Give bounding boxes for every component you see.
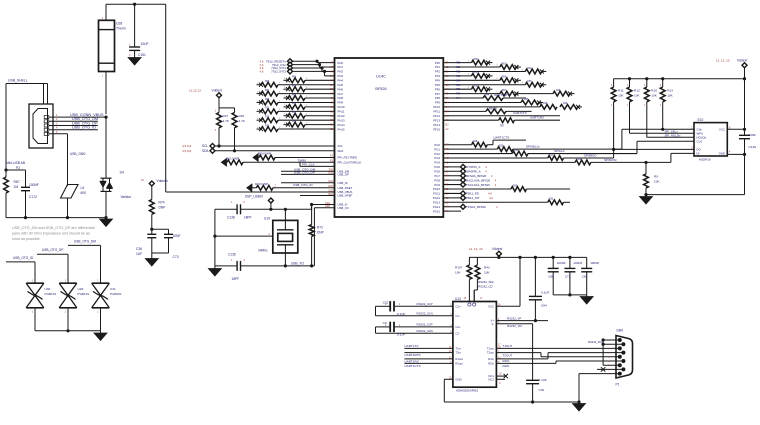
svg-text:PF13: PF13 — [433, 118, 440, 122]
svg-text:10K: 10K — [618, 93, 624, 97]
pin 3 wire USB_OTG_DP — [49, 125, 98, 127]
svg-text:R70 DNP: R70 DNP — [255, 182, 268, 186]
svg-text:PF4: PF4 — [435, 79, 441, 83]
svg-text:U19: U19 — [264, 216, 270, 220]
svg-text:10K: 10K — [634, 93, 640, 97]
resistor R67 on PH7 — [257, 93, 262, 95]
svg-text:R26: R26 — [473, 141, 478, 143]
wire crystal ground pins — [215, 235, 273, 237]
svg-text:UART1TX: UART1TX — [513, 111, 527, 115]
wire pin1 stub — [603, 339, 620, 341]
resistor R68 on PH8 — [284, 97, 289, 99]
svg-text:4.7K: 4.7K — [223, 119, 230, 123]
svg-text:SDA: SDA — [338, 149, 344, 153]
svg-text:R35: R35 — [513, 185, 518, 187]
capacitor C151 — [134, 4, 136, 46]
svg-text:PG1: PG1 — [434, 147, 440, 151]
svg-text:R71: R71 — [265, 108, 270, 110]
svg-text:R19: R19 — [577, 159, 582, 161]
junction — [133, 3, 136, 6]
svg-text:RS232_C1P: RS232_C1P — [417, 302, 433, 306]
svg-text:pairs with 90 Ohm impedance a: pairs with 90 Ohm impedance and should b… — [12, 232, 90, 236]
resistor R57 on PF7 — [443, 93, 500, 95]
svg-text:UART1CTS: UART1CTS — [494, 136, 510, 140]
svg-text:R57: R57 — [456, 93, 461, 96]
wire T2OUT to pin3 — [496, 352, 541, 354]
svg-text:PG3: PG3 — [434, 156, 440, 160]
svg-text:R50 DNP: R50 DNP — [258, 152, 271, 156]
transceiver U12 ADM3202ARNZ — [453, 302, 497, 388]
svg-text:PF5: PF5 — [435, 83, 441, 87]
resistor R70 on PH10 — [284, 106, 289, 108]
svg-text:RS232_C1N: RS232_C1N — [417, 312, 433, 316]
svg-text:RS232_VP: RS232_VP — [507, 316, 521, 320]
svg-text:R50: R50 — [456, 62, 461, 65]
capacitor C30 0.1UF — [526, 379, 539, 381]
svg-text:7912_INT2: 7912_INT2 — [271, 70, 286, 74]
svg-text:10NF: 10NF — [173, 234, 181, 238]
svg-text:M25P16: M25P16 — [699, 157, 711, 161]
wire shell — [6, 83, 48, 85]
svg-text:PH13: PH13 — [338, 118, 345, 122]
svg-text:R52: R52 — [527, 68, 532, 70]
wire pin6 stub — [603, 343, 623, 345]
capacitor C71 100NF — [569, 257, 571, 268]
svg-text:RFS0A_BF526: RFS0A_BF526 — [466, 174, 487, 178]
net RFS0A_BF526 — [443, 175, 461, 177]
svg-text:D20: D20 — [328, 185, 333, 188]
svg-text:R107: R107 — [455, 266, 463, 270]
svg-text:24Mhz: 24Mhz — [258, 249, 268, 253]
pin 5 — [618, 355, 622, 359]
svg-text:SPIMISO: SPIMISO — [584, 154, 597, 158]
svg-text:Vddext: Vddext — [492, 247, 502, 251]
resistor R12 10K — [629, 79, 631, 87]
svg-text:R13: R13 — [667, 89, 673, 93]
svg-text:R50: R50 — [474, 59, 479, 61]
wire Vddext rail — [614, 78, 745, 80]
resistor R73 on PH13 — [257, 119, 262, 121]
svg-text:PH3: PH3 — [338, 74, 344, 78]
pin 9 — [618, 372, 622, 376]
net PB11_INT — [443, 197, 461, 199]
resistor R44 on PF8 — [443, 97, 483, 99]
resistor R48 on PF10 — [443, 106, 540, 108]
ground — [104, 216, 107, 219]
wire WPd — [630, 132, 695, 134]
svg-text:10K: 10K — [455, 270, 461, 274]
svg-text:R33: R33 — [549, 199, 554, 201]
wire DO — [614, 148, 694, 150]
svg-text:C30: C30 — [539, 388, 545, 392]
resistor R19 on PG4 SPIMOSI — [443, 161, 575, 163]
resistor R51 on PF1 — [443, 66, 500, 68]
svg-text:R44: R44 — [456, 97, 461, 100]
svg-text:100NF: 100NF — [557, 261, 566, 265]
svg-text:G20: G20 — [328, 180, 333, 183]
svg-text:E10: E10 — [698, 118, 704, 122]
svg-text:R65: R65 — [265, 81, 270, 83]
svg-text:RS232_DCD: RS232_DCD — [588, 340, 604, 344]
resistor R55 on PF5 — [443, 84, 525, 86]
svg-text:USB_ID: USB_ID — [338, 181, 348, 185]
resistor R45 on PF9 — [443, 101, 521, 103]
svg-text:Vddext: Vddext — [212, 89, 222, 93]
pin 1 wire USB_CONN_VBUS — [49, 116, 106, 118]
svg-text:T2in: T2in — [455, 351, 461, 355]
svg-text:USB_OTG_ID: USB_OTG_ID — [13, 256, 34, 260]
svg-text:SCL: SCL — [202, 144, 208, 148]
svg-text:USB_OTG_ID: USB_OTG_ID — [72, 126, 96, 130]
capacitor C138 — [215, 208, 237, 210]
svg-text:4,6: 4,6 — [488, 192, 492, 196]
wire VBUS to chip — [165, 4, 167, 192]
svg-text:PG4: PG4 — [434, 161, 440, 165]
wire GND — [727, 153, 744, 155]
svg-text:PB11_INT: PB11_INT — [466, 196, 480, 200]
svg-text:A18: A18 — [325, 204, 330, 208]
svg-text:PH4: PH4 — [338, 79, 344, 83]
wire USB_OTG_DM stub — [281, 170, 335, 172]
net DT0PRI_A — [443, 166, 461, 168]
svg-text:R87: R87 — [14, 180, 20, 184]
svg-text:PF15: PF15 — [433, 127, 440, 131]
ESD diode U30 PGB1010603 — [26, 282, 44, 284]
svg-text:R56 20: R56 20 — [489, 108, 498, 111]
resistor R13 10K — [662, 79, 664, 87]
svg-text:R51: R51 — [456, 66, 461, 69]
wire RS232_C1P — [394, 305, 453, 307]
svg-text:R1in: R1in — [488, 357, 494, 361]
svg-text:PH6: PH6 — [338, 87, 344, 91]
svg-text:USB_SHELL: USB_SHELL — [8, 79, 28, 83]
svg-text:U30: U30 — [45, 287, 51, 291]
svg-text:P1: P1 — [616, 383, 620, 387]
svg-text:R47: R47 — [223, 114, 229, 118]
svg-text:NC2: NC2 — [488, 377, 494, 381]
svg-text:SPISEL1n: SPISEL1n — [526, 145, 540, 149]
svg-text:GND: GND — [719, 152, 725, 156]
flash E10 M25P16 — [694, 123, 727, 156]
wire USB_XO — [314, 207, 334, 209]
net DR0PRI_A — [443, 170, 461, 172]
svg-text:V-: V- — [491, 322, 494, 326]
svg-text:USB_VREF: USB_VREF — [338, 194, 353, 198]
svg-text:ADM3202ARNZ: ADM3202ARNZ — [456, 389, 478, 393]
svg-text:VCC: VCC — [488, 304, 494, 308]
svg-text:RS232_C2N: RS232_C2N — [417, 329, 433, 333]
svg-text:RS232_C2P: RS232_C2P — [417, 323, 433, 327]
svg-text:PG7: PG7 — [434, 174, 440, 178]
pin 6 — [621, 359, 625, 363]
wire — [219, 107, 235, 109]
net TSCLK0A_BF526 — [443, 184, 461, 186]
resistor R33 on PG13 — [443, 201, 548, 203]
svg-text:R52: R52 — [456, 70, 461, 73]
svg-text:R74: R74 — [292, 121, 297, 123]
svg-text:R57: R57 — [502, 90, 507, 92]
svg-text:PPI_CLK: PPI_CLK — [302, 162, 316, 166]
resistor R35 on PG10 — [443, 188, 511, 190]
svg-text:UART1RX: UART1RX — [404, 359, 418, 363]
svg-text:PF8: PF8 — [435, 96, 441, 100]
svg-text:RSCLK0A_BF526: RSCLK0A_BF526 — [466, 178, 491, 182]
svg-text:R49: R49 — [563, 103, 568, 105]
svg-text:SDA: SDA — [202, 149, 209, 153]
resistor R50 DNP — [253, 154, 258, 162]
svg-text:10K: 10K — [484, 270, 490, 274]
svg-text:U31: U31 — [110, 287, 116, 291]
wire — [152, 228, 169, 230]
wire tie DCD DTR DSR — [602, 340, 604, 365]
svg-text:R57: R57 — [500, 126, 505, 128]
svg-text:USB_OTG_DP: USB_OTG_DP — [42, 248, 63, 252]
svg-text:GND: GND — [455, 377, 461, 381]
svg-text:R2in: R2in — [488, 362, 494, 366]
svg-text:R54: R54 — [456, 79, 461, 82]
wire USB_VREF stub — [300, 195, 335, 197]
svg-text:PF2: PF2 — [435, 70, 441, 74]
svg-text:PH1: PH1 — [338, 65, 344, 69]
svg-text:R66: R66 — [292, 85, 297, 87]
resistor R65 on PH5 — [257, 84, 262, 86]
svg-text:10K: 10K — [667, 93, 673, 97]
svg-text:PG0: PG0 — [434, 143, 440, 147]
svg-text:R75: R75 — [265, 125, 270, 127]
ground — [100, 331, 102, 333]
capacitor C9 0.1UF — [389, 322, 391, 332]
net TFS0A_BF526 — [443, 206, 461, 208]
fuse U28 thermistor — [105, 4, 107, 20]
svg-text:10UF: 10UF — [141, 42, 149, 46]
svg-text:PH8: PH8 — [338, 96, 344, 100]
pin 2 — [621, 342, 625, 346]
svg-text:PF7: PF7 — [435, 92, 441, 96]
svg-text:PG5: PG5 — [434, 165, 440, 169]
svg-text:R46: R46 — [239, 114, 245, 118]
svg-text:VCC: VCC — [719, 128, 725, 132]
svg-text:R70: R70 — [292, 103, 297, 105]
resistor R52 on PF2 — [443, 70, 525, 72]
svg-text:R1out: R1out — [455, 357, 463, 361]
svg-text:10K: 10K — [651, 93, 657, 97]
svg-text:4,6: 4,6 — [489, 196, 493, 200]
wire VBUS top — [106, 3, 166, 5]
resistor R30 on PG3 SPIMISO — [443, 157, 548, 159]
svg-text:C68: C68 — [548, 275, 554, 279]
svg-text:USB_OTG_DP: USB_OTG_DP — [294, 171, 315, 175]
pin 1 — [618, 338, 622, 342]
resistor R9 10K — [644, 161, 647, 164]
svg-text:PH9: PH9 — [338, 101, 344, 105]
net RSCLK0A_BF526 — [443, 179, 461, 181]
wire USB_OTG_DP stub — [281, 173, 335, 175]
varistor D4 — [101, 177, 112, 179]
ground — [578, 402, 580, 404]
svg-text:E20: E20 — [329, 172, 334, 175]
svg-text:R64: R64 — [292, 77, 297, 79]
resistor R69 on PH9 — [257, 101, 262, 103]
pin 8 — [621, 367, 625, 371]
svg-text:R73: R73 — [265, 116, 270, 118]
svg-text:PF10: PF10 — [433, 105, 440, 109]
svg-text:C71: C71 — [565, 275, 571, 279]
wire R2IN to pin8 — [496, 362, 556, 364]
svg-text:UART1RTS: UART1RTS — [404, 353, 420, 357]
svg-text:PG6: PG6 — [434, 169, 440, 173]
svg-text:R61 DNP: R61 DNP — [226, 157, 239, 161]
svg-text:11, 12, 13: 11, 12, 13 — [469, 247, 483, 251]
svg-text:DR0PRI_A: DR0PRI_A — [466, 169, 481, 173]
junction VBUS — [104, 116, 107, 119]
no connect pin 9 — [597, 368, 623, 370]
resistor R53 on PF3 — [443, 75, 471, 77]
svg-text:600: 600 — [81, 191, 87, 195]
pin 4 wire USB_OTG_ID — [49, 129, 98, 131]
svg-text:T2OUT: T2OUT — [503, 353, 513, 357]
wire USB_XI — [241, 208, 312, 210]
ESD diode U31 PGB1010603 — [92, 282, 110, 284]
svg-text:C172: C172 — [29, 195, 37, 199]
wire HOLDd — [647, 136, 694, 138]
resistor R47 4.7K — [218, 108, 220, 113]
resistor R11 10K — [613, 79, 615, 87]
capacitor C149 10NF — [744, 129, 746, 135]
wire ground leg — [214, 209, 216, 266]
svg-text:R9: R9 — [654, 175, 658, 179]
svg-text:R54: R54 — [502, 77, 507, 79]
svg-text:1M: 1M — [14, 185, 19, 189]
svg-text:C36: C36 — [136, 247, 142, 251]
resistor R64 on PH4 — [284, 79, 289, 81]
net PB11_PD — [443, 192, 461, 194]
capacitor C73 — [164, 233, 173, 235]
resistor R28 on PF7 — [521, 93, 553, 95]
svg-text:D4: D4 — [120, 171, 124, 175]
svg-text:Vddext: Vddext — [737, 59, 747, 63]
svg-text:L6: L6 — [81, 186, 85, 190]
svg-text:T1OUT: T1OUT — [503, 344, 513, 348]
capacitor C172 — [6, 169, 26, 171]
svg-text:U28: U28 — [116, 22, 122, 26]
net UART1RTS — [404, 352, 453, 354]
pin 4 — [621, 351, 625, 355]
svg-text:R12: R12 — [634, 89, 640, 93]
svg-text:UART1CTS: UART1CTS — [404, 364, 420, 368]
resistor R72 DNP — [310, 203, 313, 206]
svg-text:R72: R72 — [292, 112, 297, 114]
svg-text:18PF: 18PF — [232, 277, 240, 281]
pin NC2 no connect — [496, 378, 505, 380]
resistor R54 on PF4 — [443, 79, 500, 81]
resistor R66 on PH6 — [284, 88, 289, 90]
net RS232_VM — [496, 323, 532, 325]
svg-text:PG11: PG11 — [433, 192, 440, 196]
capacitor C68 100NF — [552, 257, 554, 268]
svg-text:PG13: PG13 — [433, 200, 441, 204]
svg-text:U29: U29 — [78, 287, 84, 291]
svg-text:PF1: PF1 — [435, 65, 441, 69]
svg-text:UART1TX: UART1TX — [404, 344, 418, 348]
svg-text:USB_DP: USB_DP — [338, 173, 349, 177]
svg-text:BF526: BF526 — [375, 87, 386, 91]
svg-text:USB_GND: USB_GND — [70, 152, 86, 156]
svg-text:PH11: PH11 — [338, 110, 345, 114]
svg-text:PGB101: PGB101 — [78, 292, 90, 296]
svg-text:PH0: PH0 — [338, 61, 344, 65]
wire Vddext rail — [469, 256, 587, 258]
wire USB_ID stub — [281, 182, 335, 184]
wire — [152, 252, 169, 254]
svg-text:R56: R56 — [474, 85, 479, 87]
svg-text:Therm: Therm — [116, 26, 126, 30]
svg-text:R2out: R2out — [455, 362, 463, 366]
svg-text:PF11: PF11 — [434, 110, 441, 114]
svg-text:PB11_PD: PB11_PD — [466, 192, 480, 196]
svg-text:C2-: C2- — [455, 331, 460, 335]
svg-text:C151: C151 — [138, 53, 146, 57]
svg-text:UART1RX: UART1RX — [530, 115, 544, 119]
svg-text:RS232_CD: RS232_CD — [478, 284, 493, 288]
svg-text:4,5,6,8: 4,5,6,8 — [182, 149, 192, 153]
svg-text:100NF: 100NF — [590, 261, 599, 265]
wire R1IN to pin7 — [496, 358, 548, 360]
ferrite bead L6 — [61, 185, 79, 199]
svg-text:short as possible: short as possible — [12, 237, 40, 241]
svg-text:PH15: PH15 — [338, 127, 345, 131]
resistor R29 on PG1 SPISEL1n — [443, 148, 497, 150]
svg-text:SPICLK: SPICLK — [554, 149, 565, 153]
svg-text:R30: R30 — [549, 154, 554, 156]
resistor R70 DNP — [247, 184, 252, 192]
svg-text:U12: U12 — [455, 297, 461, 301]
wire — [553, 294, 587, 296]
svg-text:R69: R69 — [265, 99, 270, 101]
svg-text:TSCLK0A_BF526: TSCLK0A_BF526 — [466, 183, 490, 187]
pin NC1 no connect — [496, 375, 505, 377]
svg-text:10NF: 10NF — [749, 133, 757, 137]
svg-text:R44: R44 — [485, 94, 490, 96]
resistor R56 on PF6 — [443, 88, 471, 90]
svg-text:PG14: PG14 — [433, 205, 441, 209]
ground — [128, 58, 141, 66]
wire GND — [444, 378, 453, 380]
resistor R31 on PG2 SPICLK — [443, 153, 512, 155]
svg-text:DSP_USBXI: DSP_USBXI — [245, 194, 263, 198]
svg-text:R10: R10 — [651, 89, 657, 93]
svg-text:C138: C138 — [227, 216, 235, 220]
wire — [35, 330, 101, 332]
svg-text:0.1UF: 0.1UF — [397, 312, 406, 316]
capacitor C10 0.1UF — [389, 301, 391, 311]
ground — [151, 253, 153, 259]
svg-text:Vddusb: Vddusb — [157, 179, 168, 183]
wire pin4 stub — [603, 364, 620, 366]
svg-text:Varistor: Varistor — [121, 195, 133, 199]
wire ground rail — [6, 217, 106, 219]
wire CLK — [637, 140, 694, 142]
svg-text:PG2: PG2 — [434, 152, 440, 156]
resistor R107 10K — [468, 257, 470, 265]
pin 5 wire USB_GND — [49, 133, 68, 135]
wire VCC — [496, 305, 520, 307]
svg-text:SCL: SCL — [338, 144, 344, 148]
svg-text:18PF: 18PF — [244, 216, 252, 220]
capacitor C84 0.1UF — [534, 257, 536, 296]
svg-text:C20: C20 — [328, 189, 333, 192]
svg-text:0.1UF: 0.1UF — [541, 291, 550, 295]
ground — [645, 195, 647, 197]
